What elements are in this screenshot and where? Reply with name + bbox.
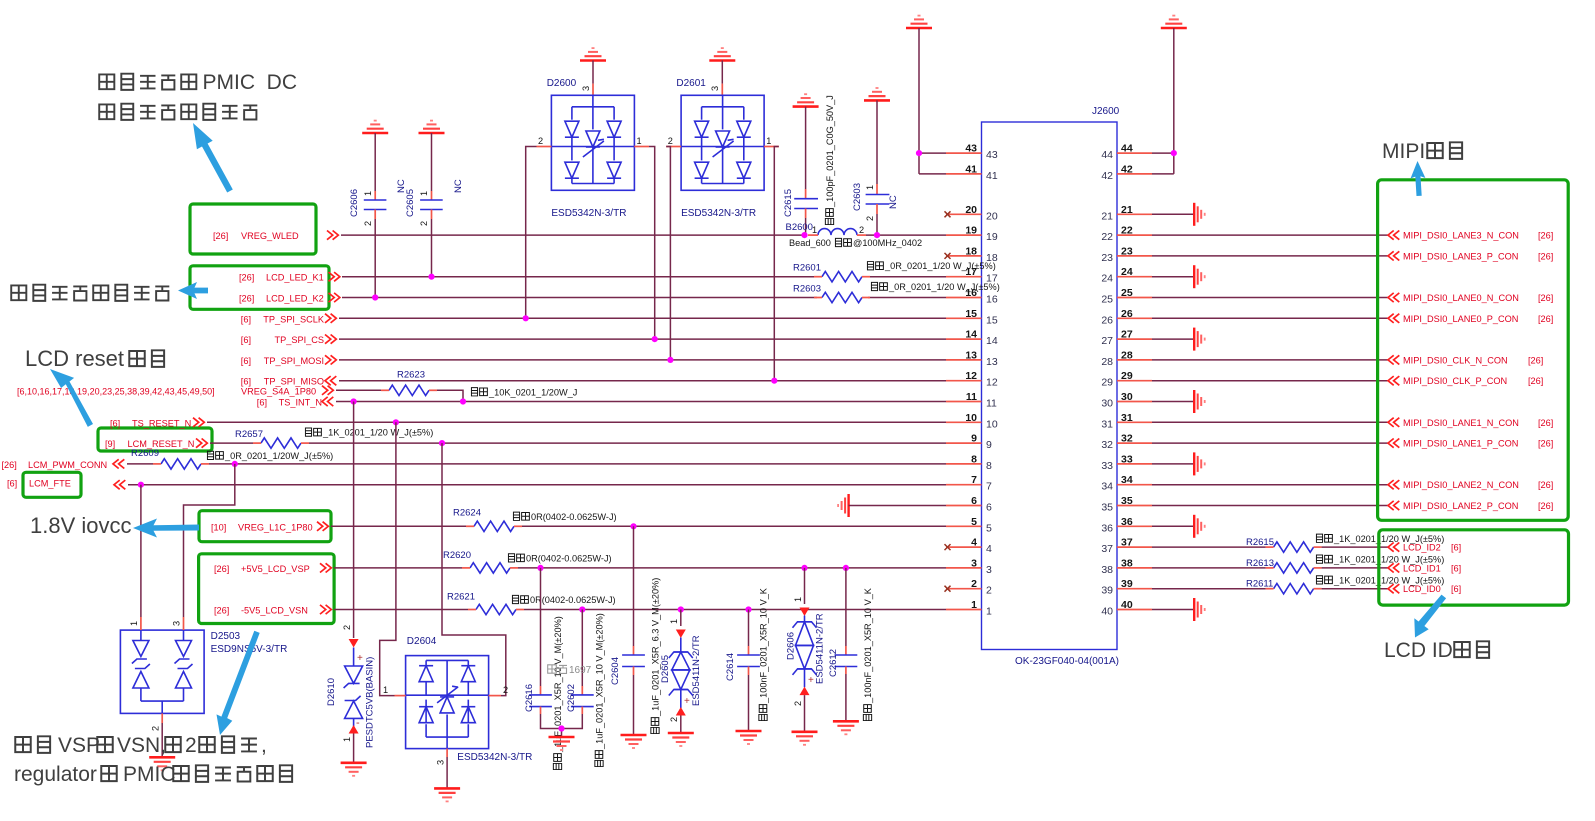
resistor R2601: [793, 263, 870, 282]
pin 15: [946, 308, 998, 327]
svg-text:36: 36: [1101, 522, 1113, 534]
svg-text:[26]: [26]: [1528, 355, 1543, 365]
svg-text:NC: NC: [453, 179, 464, 193]
svg-text:19: 19: [965, 225, 977, 237]
capacitor C2612: [828, 568, 857, 677]
resistor R2621: [447, 592, 524, 615]
svg-text:ESD5342N-3/TR: ESD5342N-3/TR: [551, 208, 626, 219]
svg-text:4: 4: [986, 543, 992, 555]
svg-text:_1uF_0201_X5R_10 V_M(±20%): _1uF_0201_X5R_10 V_M(±20%): [595, 613, 605, 750]
diode array D2601 ESD5342N-3/TR: [666, 61, 779, 220]
pin 33: [1101, 453, 1152, 472]
resistor R2609: [131, 448, 209, 469]
svg-text:[26]: [26]: [213, 231, 228, 241]
wire pin to R2611: [1152, 588, 1266, 590]
capacitor C2615: [783, 107, 818, 218]
svg-text:[26]: [26]: [1538, 314, 1553, 324]
wire D2600 pin1 to TP_SPI_CS: [649, 147, 655, 340]
svg-text:_10K_0201_1/20W_J: _10K_0201_1/20W_J: [488, 387, 577, 397]
green box LCM_RESET_N: [98, 428, 212, 451]
port MIPI_DSI0_LANE1_P_CON: [1388, 439, 1553, 449]
svg-text:MIPI_DSI0_LANE0_P_CON: MIPI_DSI0_LANE0_P_CON: [1403, 314, 1518, 324]
wire TP_SPI_SCLK: [339, 317, 946, 319]
svg-text:R2615: R2615: [1246, 537, 1274, 548]
svg-text:35: 35: [1121, 495, 1133, 507]
svg-text:2: 2: [151, 726, 161, 731]
svg-text:ESD5411N-2/TR: ESD5411N-2/TR: [691, 635, 702, 706]
node LCM_PWM junction: [232, 461, 238, 467]
svg-text:-: -: [356, 717, 360, 729]
ground (D2610): [341, 763, 367, 776]
wire D2601 pin1 to TP_SPI_MISO: [774, 147, 779, 381]
svg-text:TS_INT_N: TS_INT_N: [279, 398, 322, 408]
svg-text:_100pF_0201_C0G_50V_J: _100pF_0201_C0G_50V_J: [825, 95, 835, 208]
svg-text:13: 13: [986, 356, 998, 368]
ground (pin 36): [1194, 515, 1205, 538]
diode D2503 ESD9NS5V-3/TR: [120, 617, 287, 731]
wire TS_INT_N branch to D2610: [353, 402, 355, 639]
svg-text:36: 36: [1121, 516, 1133, 528]
port LCM_FTE: [7, 479, 125, 490]
svg-text:44: 44: [1101, 149, 1113, 161]
svg-text:3: 3: [172, 621, 182, 626]
annotation: LCD ID text: [1384, 639, 1489, 662]
annotation arrow to LCD ID box: [1414, 595, 1446, 638]
svg-text:28: 28: [1121, 349, 1133, 361]
value R2609: [207, 451, 333, 461]
wire LCM_RESET_N: [210, 442, 946, 444]
pin 7: [946, 474, 992, 493]
green box VREG_L1C_1P80: [199, 511, 331, 542]
svg-text:6: 6: [986, 502, 992, 514]
node C2615 junction: [801, 232, 807, 238]
svg-text:-5V5_LCD_VSN: -5V5_LCD_VSN: [241, 606, 308, 616]
svg-text:@100MHz_0402: @100MHz_0402: [853, 238, 922, 248]
value R2603: [871, 282, 999, 292]
svg-text:MIPI: MIPI: [1382, 140, 1425, 163]
wire TS_RESET_N branch to D2604 pin1: [380, 422, 396, 695]
port LCM_RESET_N: [105, 439, 207, 450]
svg-text:_0R_0201_1/20 W_J(±5%): _0R_0201_1/20 W_J(±5%): [884, 261, 996, 271]
svg-text:1: 1: [419, 191, 429, 196]
svg-text:C2602: C2602: [566, 684, 577, 712]
svg-text:TP_SPI_MISO: TP_SPI_MISO: [264, 377, 324, 387]
svg-text:D2605: D2605: [660, 655, 671, 683]
wire LCM_PWM_CONN branch to D2503 pin3: [184, 464, 235, 617]
wire R2611 to port: [1322, 588, 1388, 590]
port MIPI_DSI0_LANE2_N_CON: [1388, 480, 1553, 490]
pin 29: [1101, 370, 1152, 389]
pin 17: [946, 266, 998, 285]
svg-text:J2600: J2600: [1092, 106, 1120, 117]
svg-text:41: 41: [965, 163, 977, 175]
svg-text:0R(0402-0.0625W-J): 0R(0402-0.0625W-J): [531, 512, 617, 522]
pin 6: [946, 495, 992, 514]
svg-text:VREG_L1C_1P80: VREG_L1C_1P80: [238, 522, 313, 532]
svg-text:1: 1: [363, 191, 373, 196]
svg-text:2: 2: [363, 221, 373, 226]
pin 28: [1101, 349, 1152, 368]
svg-text:[6]: [6]: [241, 377, 251, 387]
svg-text:38: 38: [1101, 564, 1113, 576]
resistor R2620: [443, 550, 518, 573]
svg-text:21: 21: [1101, 210, 1113, 222]
wire LCD_LED_K1: [342, 276, 946, 278]
node D2600 pin1 junction: [652, 336, 658, 342]
pin 24: [1101, 266, 1152, 285]
svg-text:[6]: [6]: [241, 356, 251, 366]
svg-text:R2621: R2621: [447, 592, 475, 603]
svg-text:+: +: [808, 675, 814, 686]
svg-text:MIPI_DSI0_LANE3_P_CON: MIPI_DSI0_LANE3_P_CON: [1403, 251, 1518, 261]
wire R2615 to port: [1322, 546, 1388, 548]
svg-text:VSP: VSP: [58, 734, 100, 757]
annotation arrow to LCD_LED: [178, 282, 208, 299]
svg-text:[26]: [26]: [1538, 501, 1553, 511]
pin 43: [946, 143, 998, 162]
svg-text:[26]: [26]: [1538, 251, 1553, 261]
ground (pin 24): [1194, 265, 1205, 288]
pin 16: [946, 287, 998, 306]
pin 36: [1101, 516, 1152, 535]
pin 25: [1101, 287, 1152, 306]
svg-text:1697: 1697: [569, 665, 592, 676]
node TS_INT_N junctions: [351, 398, 467, 404]
svg-text:27: 27: [1121, 329, 1133, 341]
port MIPI_DSI0_LANE3_P_CON: [1388, 251, 1553, 261]
node junction 44: [1171, 150, 1177, 156]
ground (above D2601): [709, 48, 735, 60]
svg-text:MIPI_DSI0_LANE0_N_CON: MIPI_DSI0_LANE0_N_CON: [1403, 293, 1519, 303]
svg-text:TS_RESET_N: TS_RESET_N: [132, 418, 191, 428]
svg-text:2: 2: [668, 136, 673, 146]
svg-text:+: +: [357, 653, 363, 664]
diode array D2600 ESD5342N-3/TR: [537, 61, 650, 220]
value R2615: [1316, 534, 1444, 544]
node LCM_RESET_N junction: [439, 440, 445, 446]
svg-text:C2605: C2605: [405, 189, 416, 217]
svg-text:MIPI_DSI0_LANE1_N_CON: MIPI_DSI0_LANE1_N_CON: [1403, 418, 1519, 428]
svg-text:4: 4: [971, 537, 977, 549]
svg-text:+5V5_LCD_VSP: +5V5_LCD_VSP: [241, 564, 310, 574]
svg-text:[9]: [9]: [105, 439, 115, 449]
svg-text:2: 2: [503, 685, 508, 695]
svg-text:_100nF_0201_X5R_10 V_K: _100nF_0201_X5R_10 V_K: [759, 587, 769, 704]
diode D2610 PESDTC5VB(BASIN): [326, 625, 376, 748]
svg-text:2: 2: [971, 578, 977, 590]
svg-text:TP_SPI_CS: TP_SPI_CS: [274, 335, 324, 345]
node D2600 pin2 junction: [523, 315, 529, 321]
svg-text:24: 24: [1121, 266, 1133, 278]
svg-text:LCD reset: LCD reset: [25, 346, 124, 371]
svg-text:32: 32: [1101, 439, 1113, 451]
svg-text:13: 13: [965, 349, 977, 361]
svg-text:[6]: [6]: [1451, 563, 1461, 573]
pin 26: [1101, 308, 1152, 327]
ground (top right, net to pins 44/42): [1161, 16, 1187, 28]
svg-text:3: 3: [581, 86, 591, 91]
svg-text:[26]: [26]: [214, 606, 229, 616]
wire MIPI_DSI0_LANE1_N_CON: [1152, 421, 1388, 423]
svg-text:R2624: R2624: [453, 507, 481, 518]
value R2601: [867, 261, 995, 271]
svg-text:PESDTC5VB(BASIN): PESDTC5VB(BASIN): [365, 657, 376, 748]
svg-text:23: 23: [1101, 252, 1113, 264]
wire C2614 to ground: [748, 675, 750, 731]
ground (above C2606): [362, 121, 388, 133]
wire D2601 pin2 to TP_SPI_MOSI: [666, 147, 670, 360]
svg-text:10: 10: [986, 418, 998, 430]
svg-text:38: 38: [1121, 557, 1133, 569]
green box LCD ID: [1379, 530, 1569, 605]
wire C2604 to ground: [633, 675, 635, 735]
port MIPI_DSI0_CLK_P_CON: [1388, 376, 1543, 386]
port TP_SPI_MOSI: [241, 355, 337, 366]
pin 2: [945, 578, 993, 597]
capacitor C2606: [349, 133, 407, 226]
svg-text:26: 26: [1101, 314, 1113, 326]
svg-text:LCM_PWM_CONN: LCM_PWM_CONN: [28, 460, 107, 470]
port TS_INT_N: [257, 397, 334, 408]
wire +5V5_LCD_VSP: [334, 567, 946, 569]
svg-text:44: 44: [1121, 143, 1133, 155]
svg-text:[26]: [26]: [239, 294, 254, 304]
pin 27: [1101, 329, 1152, 348]
svg-text:R2657: R2657: [235, 429, 263, 440]
value R2613: [1316, 555, 1444, 565]
svg-text:40: 40: [1101, 606, 1113, 618]
port LCD_LED_K1: [239, 272, 340, 283]
pin 30: [1101, 391, 1152, 410]
svg-text:[6,10,16,17,18,19,20,23,25,38,: [6,10,16,17,18,19,20,23,25,38,39,42,43,4…: [17, 386, 215, 396]
port MIPI_DSI0_LANE2_P_CON: [1388, 501, 1553, 511]
svg-text:[26]: [26]: [239, 273, 254, 283]
wire D2600 pin2 to TP_SPI_SCLK: [526, 147, 537, 319]
svg-text:R2620: R2620: [443, 550, 471, 561]
node C2616/C2602 junction: [558, 725, 564, 731]
wire C2616/C2602 bottoms to ground: [541, 714, 583, 737]
wire pin to R2613: [1152, 567, 1266, 569]
green box VREG_WLED: [190, 204, 316, 254]
pin 5: [946, 516, 992, 535]
annotation: 1.8V iovcc text: [30, 513, 132, 538]
svg-text:2: 2: [865, 216, 875, 221]
port TP_SPI_SCLK: [241, 314, 337, 325]
svg-text:PMIC: PMIC: [123, 763, 176, 786]
svg-text:VSN,: VSN,: [117, 734, 166, 757]
svg-text:[6]: [6]: [110, 418, 120, 428]
node junction 43: [916, 150, 922, 156]
svg-text:_0R_0201_1/20W_J(±5%): _0R_0201_1/20W_J(±5%): [224, 451, 333, 461]
wire MIPI_DSI0_LANE0_N_CON: [1152, 297, 1388, 299]
svg-text:B2600: B2600: [786, 222, 813, 233]
wire MIPI_DSI0_LANE3_P_CON: [1152, 255, 1388, 257]
svg-text:[26]: [26]: [214, 564, 229, 574]
green box MIPI signals: [1378, 180, 1569, 521]
svg-text:PMIC DC: PMIC DC: [203, 71, 298, 94]
ferrite bead B2600: [786, 222, 867, 235]
pin 31: [1101, 412, 1152, 431]
svg-text:2: 2: [669, 717, 679, 722]
svg-text:1: 1: [766, 136, 771, 146]
diode array D2604 ESD5342N-3/TR: [383, 636, 532, 765]
svg-text:1: 1: [129, 621, 139, 626]
port TS_RESET_N: [110, 418, 204, 429]
svg-text:ESD5342N-3/TR: ESD5342N-3/TR: [457, 752, 532, 763]
svg-text:[26]: [26]: [1538, 480, 1553, 490]
port LCD_ID1: [1388, 563, 1461, 573]
pin 13: [946, 349, 998, 368]
svg-text:[6]: [6]: [257, 398, 267, 408]
wire VREG_S4A_1P80: [336, 390, 463, 401]
capacitor C2616: [524, 568, 552, 714]
svg-text:32: 32: [1121, 433, 1133, 445]
port LCD_LED_K2: [239, 293, 340, 304]
svg-text:1: 1: [383, 685, 388, 695]
ground (above C2603): [864, 88, 890, 100]
svg-text:[26]: [26]: [1538, 418, 1553, 428]
wire TP_SPI_MOSI: [339, 359, 946, 361]
svg-text:TP_SPI_MOSI: TP_SPI_MOSI: [264, 356, 324, 366]
port VREG_L1C_1P80: [211, 522, 328, 533]
node C2605 junction: [428, 274, 434, 280]
svg-text:D2600: D2600: [547, 78, 577, 89]
wire MIPI_DSI0_CLK_N_CON: [1152, 359, 1388, 361]
wire LCM_FTE branch to D2503 pin1: [140, 485, 142, 617]
port MIPI_DSI0_LANE3_N_CON: [1388, 231, 1553, 241]
diode D2605 ESD5411N-2/TR: [660, 610, 702, 723]
port LCD_ID0: [1388, 584, 1461, 594]
wire C2603 to pin19 net: [876, 214, 878, 235]
svg-text:1: 1: [986, 606, 992, 618]
pin 38: [1101, 557, 1152, 576]
svg-text:29: 29: [1101, 377, 1113, 389]
svg-text:D2604: D2604: [407, 636, 437, 647]
svg-text:39: 39: [1121, 578, 1133, 590]
ground (above D2600): [580, 48, 606, 60]
svg-text:30: 30: [1101, 398, 1113, 410]
wire C2605 to LCD_LED_K1: [431, 219, 433, 277]
svg-text:2: 2: [859, 225, 864, 235]
annotation arrow to VREG_WLED: [193, 123, 233, 193]
pin 23: [1101, 245, 1152, 264]
wire VREG_L1C_1P80: [331, 525, 946, 527]
svg-text:21: 21: [1121, 204, 1133, 216]
pin 42: [1101, 163, 1152, 182]
pin 40: [1101, 599, 1152, 618]
svg-text:42: 42: [1101, 170, 1113, 182]
svg-text:,: ,: [261, 734, 267, 757]
svg-text:15: 15: [986, 314, 998, 326]
svg-text:2: 2: [342, 625, 352, 630]
pin 3: [946, 557, 992, 576]
svg-text:30: 30: [1121, 391, 1133, 403]
pin 34: [1101, 474, 1152, 493]
ground (D2503): [149, 757, 175, 770]
svg-text:3: 3: [971, 557, 977, 569]
svg-text:[26]: [26]: [1538, 293, 1553, 303]
svg-text:1: 1: [669, 619, 679, 624]
ground (pin 27): [1194, 328, 1205, 351]
svg-text:2: 2: [986, 585, 992, 597]
wire pin to R2615: [1152, 546, 1266, 548]
svg-text:12: 12: [965, 370, 977, 382]
svg-text:23: 23: [1121, 245, 1133, 257]
svg-text:25: 25: [1101, 294, 1113, 306]
node D2601 pin2 junction: [667, 357, 673, 363]
svg-text:MIPI_DSI0_CLK_N_CON: MIPI_DSI0_CLK_N_CON: [1403, 355, 1508, 365]
svg-text:MIPI_DSI0_LANE2_N_CON: MIPI_DSI0_LANE2_N_CON: [1403, 480, 1519, 490]
svg-text:R2623: R2623: [397, 369, 425, 380]
svg-text:1: 1: [971, 599, 977, 611]
svg-text:11: 11: [966, 391, 977, 403]
pin 37: [1101, 537, 1152, 556]
svg-text:12: 12: [986, 377, 998, 389]
wire LCD_LED_K2: [342, 297, 946, 299]
svg-text:31: 31: [1101, 418, 1113, 430]
svg-text:R2613: R2613: [1246, 558, 1274, 569]
svg-text:R2609: R2609: [131, 448, 159, 459]
svg-text:OK-23GF040-04(001A): OK-23GF040-04(001A): [1015, 656, 1119, 667]
svg-text:Bead_600: Bead_600: [789, 238, 831, 248]
svg-text:[6]: [6]: [1451, 543, 1461, 553]
svg-text:ESD5411N-2/TR: ESD5411N-2/TR: [815, 613, 826, 684]
svg-text:37: 37: [1121, 537, 1133, 549]
wire VREG_WLED: [341, 234, 946, 236]
resistor R2657: [235, 429, 309, 448]
node LCM_FTE junction: [138, 482, 144, 488]
wire pin21 to ground: [1152, 213, 1194, 215]
svg-text:[6]: [6]: [241, 314, 251, 324]
port MIPI_DSI0_LANE1_N_CON: [1388, 418, 1553, 428]
svg-text:3: 3: [710, 86, 720, 91]
svg-text:11: 11: [986, 398, 997, 410]
annotation: VSP/VSN note line1: [15, 734, 100, 757]
pin 18: [945, 245, 998, 264]
resistor R2615: [1246, 537, 1322, 552]
pin 12: [946, 370, 998, 389]
svg-text:41: 41: [986, 170, 998, 182]
svg-text:16: 16: [986, 294, 998, 306]
svg-text:ESD5342N-3/TR: ESD5342N-3/TR: [681, 208, 756, 219]
svg-text:_100nF_0201_X5R_10 V_K: _100nF_0201_X5R_10 V_K: [863, 587, 873, 704]
node TS_RESET_N junction: [393, 419, 399, 425]
ground (C2612): [833, 721, 859, 734]
svg-text:33: 33: [1101, 460, 1113, 472]
svg-text:1: 1: [812, 225, 817, 235]
svg-text:C2614: C2614: [725, 653, 736, 681]
svg-text:D2610: D2610: [326, 678, 337, 706]
pin 8: [946, 453, 992, 472]
wire TS_INT_N: [336, 401, 946, 403]
value R2620: [508, 553, 611, 563]
wire 43/41 to top ground: [919, 28, 946, 174]
wire C2606 to LCD_LED_K2: [374, 219, 376, 298]
svg-text:C2612: C2612: [828, 649, 839, 677]
pin 44: [1101, 143, 1152, 162]
svg-text:5: 5: [986, 522, 992, 534]
svg-text:10: 10: [965, 412, 977, 424]
svg-text:34: 34: [1101, 481, 1113, 493]
svg-text:2: 2: [538, 136, 543, 146]
ground (pin 40): [1194, 598, 1205, 621]
node VREG_L1C junction: [630, 523, 636, 529]
svg-text:R2601: R2601: [793, 263, 821, 274]
resistor R2611: [1246, 579, 1322, 594]
svg-text:D2503: D2503: [211, 631, 241, 642]
value C2615 (vertical): [825, 95, 835, 224]
svg-text:[26]: [26]: [1538, 231, 1553, 241]
